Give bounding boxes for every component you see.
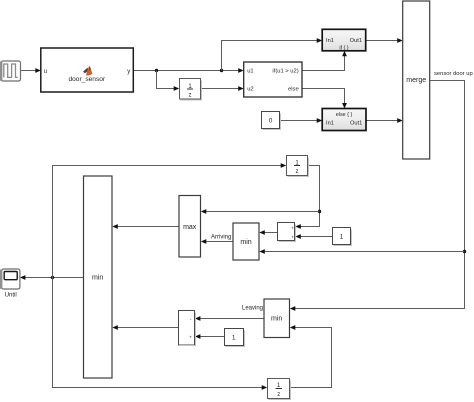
svg-text:u1: u1 <box>247 69 253 75</box>
svg-text:min: min <box>92 275 103 282</box>
svg-text:z: z <box>296 169 299 175</box>
if-action subsystem <box>322 29 366 51</box>
wire Merge output sensor door up down right side to Leaving min <box>290 81 466 311</box>
svg-text:1: 1 <box>232 335 236 342</box>
wire else-action Out1 to Merge <box>366 118 403 123</box>
wire feedback down to bottom Unit Delay <box>53 278 268 390</box>
wire Constant1 Leaving to Subtract lower input <box>195 334 224 339</box>
svg-text:max: max <box>183 224 197 231</box>
wire big min output to Until <box>20 275 84 280</box>
Leaving min block <box>264 299 290 338</box>
wire Subtract output to big min lower input <box>112 325 178 330</box>
Add block Arriving <box>278 223 296 242</box>
wire Pulse to door_sensor u <box>21 68 41 73</box>
wire branch down to Unit Delay <box>157 71 180 91</box>
unit delay block 1/z middle <box>287 156 309 177</box>
max block <box>179 196 201 258</box>
svg-text:if(u1 > u2): if(u1 > u2) <box>272 69 298 75</box>
If block <box>244 62 302 97</box>
Subtract block Leaving <box>179 311 196 346</box>
svg-text:merge: merge <box>406 77 426 84</box>
wire Constant1 to Add lower input <box>295 234 332 239</box>
Until scope block <box>0 269 20 299</box>
svg-text:u2: u2 <box>247 87 253 93</box>
svg-text:door_sensor: door_sensor <box>68 76 105 83</box>
wire If out1 to if-action control <box>302 51 347 71</box>
wire Leaving min output to Subtract <box>195 316 264 321</box>
svg-text:Arriving: Arriving <box>211 235 231 241</box>
wire bottom Unit Delay output to Leaving min lower input <box>290 325 332 387</box>
svg-text:y: y <box>127 69 130 75</box>
wire If else to else-action control <box>302 89 347 109</box>
svg-text:Until: Until <box>5 293 17 299</box>
constant 0 block <box>262 112 281 130</box>
svg-text:min: min <box>240 239 251 246</box>
svg-text:1: 1 <box>340 234 344 241</box>
wire branch at right to Arriving min lower input <box>259 249 464 254</box>
svg-text:In1: In1 <box>326 38 334 44</box>
pulse generator block <box>0 61 21 81</box>
wire Arriving min output to max <box>201 239 233 244</box>
svg-text:Leaving: Leaving <box>242 306 263 312</box>
svg-text:Out1: Out1 <box>350 121 362 127</box>
merge block <box>403 1 430 159</box>
svg-text:else { }: else { } <box>336 112 353 118</box>
wire Unit Delay to If u2 <box>201 86 244 91</box>
svg-text:min: min <box>271 316 282 323</box>
MATLAB Function block door_sensor <box>41 48 134 92</box>
wire if-action Out1 to Merge <box>366 38 403 43</box>
svg-text:0: 0 <box>269 118 273 125</box>
svg-text:z: z <box>277 392 280 398</box>
unit delay block 1/z top <box>180 79 202 101</box>
wire Constant0 to else-action In1 <box>280 118 322 123</box>
svg-text:sensor door up: sensor door up <box>434 71 473 77</box>
wire branch up to if-action In1 <box>222 38 323 70</box>
wire feedback up to top Unit Delay <box>53 163 287 277</box>
svg-text:u: u <box>44 69 47 75</box>
wire Add output to Arriving min <box>259 230 277 235</box>
else-action subsystem <box>322 109 366 131</box>
Arriving min block <box>233 223 259 260</box>
svg-text:z: z <box>189 92 192 98</box>
svg-text:+: + <box>291 225 294 230</box>
svg-text:Out1: Out1 <box>350 38 362 44</box>
big min block <box>84 176 113 378</box>
svg-text:In1: In1 <box>326 121 334 127</box>
unit delay block 1/z bottom <box>268 379 291 400</box>
svg-text:+: + <box>189 335 192 340</box>
wire top Unit Delay output to Add and max <box>201 166 321 229</box>
wire max output to big min <box>112 224 179 229</box>
svg-text:if { }: if { } <box>339 45 348 51</box>
svg-text:else: else <box>288 87 299 93</box>
svg-text:+: + <box>291 235 294 240</box>
constant 1 block Leaving <box>225 329 245 347</box>
constant 1 block Arriving <box>333 228 352 246</box>
wire door_sensor y to If u1 <box>133 68 243 73</box>
